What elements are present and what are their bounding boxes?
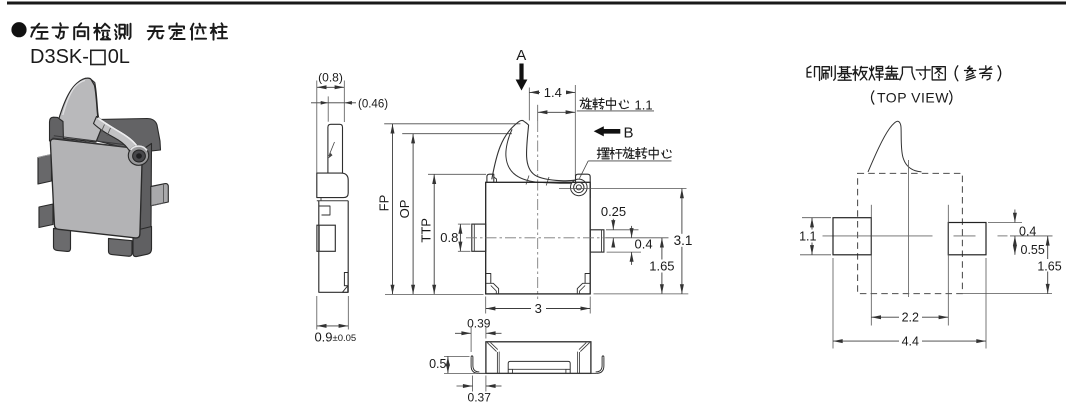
svg-text:3.1: 3.1: [674, 233, 693, 248]
svg-text:1.1: 1.1: [799, 229, 816, 243]
svg-text:1.65: 1.65: [1037, 260, 1061, 274]
svg-text:OP: OP: [397, 200, 412, 219]
svg-text:0.37: 0.37: [468, 391, 492, 405]
svg-text:0.9: 0.9: [314, 330, 332, 345]
svg-text:0.25: 0.25: [601, 204, 626, 219]
svg-text:1.4: 1.4: [544, 85, 562, 100]
svg-text:1.65: 1.65: [649, 259, 674, 274]
svg-text:TOP VIEW: TOP VIEW: [877, 89, 949, 105]
svg-text:B: B: [624, 125, 634, 142]
svg-text:0.8: 0.8: [440, 230, 458, 245]
svg-text:0.4: 0.4: [1019, 224, 1036, 238]
svg-text:(0.46): (0.46): [358, 99, 388, 111]
svg-text:A: A: [516, 47, 526, 64]
svg-text:TTP: TTP: [418, 218, 433, 243]
svg-text:0.39: 0.39: [467, 316, 491, 330]
svg-text:1.1: 1.1: [635, 98, 653, 113]
svg-text:0.4: 0.4: [635, 237, 653, 252]
svg-text:0.55: 0.55: [1021, 243, 1045, 257]
svg-text:0L: 0L: [108, 46, 130, 68]
svg-text:FP: FP: [376, 195, 391, 212]
svg-text:(0.8): (0.8): [318, 71, 343, 85]
svg-text:0.5: 0.5: [429, 357, 446, 371]
svg-text:3: 3: [535, 301, 542, 316]
svg-text:±0.05: ±0.05: [333, 333, 357, 344]
svg-text:2.2: 2.2: [902, 311, 919, 325]
svg-text:D3SK-: D3SK-: [30, 46, 89, 68]
svg-text:4.4: 4.4: [902, 334, 919, 348]
